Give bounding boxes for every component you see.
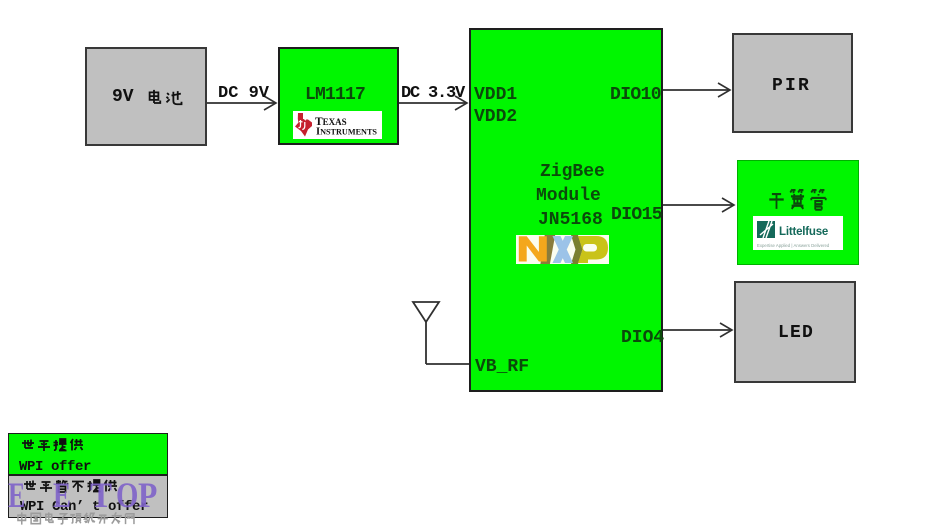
- label ZigBee: [540, 163, 605, 181]
- pin VB_RF: [475, 358, 529, 376]
- wire DIO4: module to LED: [663, 323, 732, 337]
- block: 9V battery: [85, 47, 207, 146]
- pin VDD2: [474, 108, 517, 126]
- label WPI offer: [19, 460, 91, 474]
- legend: WPI offer (green): [8, 433, 168, 475]
- logo NXP: [516, 235, 609, 264]
- label 9V 电池: [112, 88, 184, 108]
- label WPI Can't offer: [20, 500, 148, 514]
- pin DIO15: [611, 206, 662, 224]
- label JN5168: [538, 211, 603, 229]
- label DC 3.3V: [401, 85, 464, 102]
- pin DIO10: [610, 86, 661, 104]
- label 世平提供: [20, 437, 84, 453]
- wire DIO10: module to PIR: [663, 83, 730, 97]
- wire DC 3.3V: LM1117 to ZigBee module: [399, 96, 467, 110]
- watermark EETOP: [0, 476, 1, 479]
- watermark 中国电子顶级开发网: [15, 511, 137, 527]
- wire DC 9V: battery to LM1117: [207, 96, 276, 110]
- wire VB_RF: antenna to module: [426, 363, 469, 365]
- wire DIO15: module to reed switch: [663, 198, 734, 212]
- svg-text:INSTRUMENTS: INSTRUMENTS: [316, 127, 377, 138]
- label DC 9V: [218, 85, 269, 102]
- legend: WPI can't offer (gray): [8, 475, 168, 518]
- CJK glyph shapes: [0, 0, 1, 1]
- svg-text:Expertise Applied | Answers: Expertise Applied | Answers Delivered: [757, 243, 830, 248]
- label LED: [778, 324, 814, 342]
- pin DIO4: [621, 329, 664, 347]
- label PIR: [772, 77, 811, 95]
- block: reed switch 干簧管: [737, 160, 859, 265]
- logo Littelfuse: [753, 216, 843, 250]
- block: ZigBee module JN5168: [469, 28, 663, 392]
- label 干簧管: [766, 187, 829, 212]
- block: LED: [734, 281, 856, 383]
- label 世平暂不提供: [22, 478, 118, 494]
- label Module: [536, 187, 601, 205]
- label LM1117: [305, 86, 365, 104]
- antenna ANT1: [413, 302, 439, 364]
- block: regulator LM1117: [278, 47, 399, 145]
- svg-text:Littelfuse: Littelfuse: [779, 226, 828, 238]
- block: PIR sensor: [732, 33, 853, 133]
- logo Texas Instruments: [293, 111, 382, 139]
- pin VDD1: [474, 86, 517, 104]
